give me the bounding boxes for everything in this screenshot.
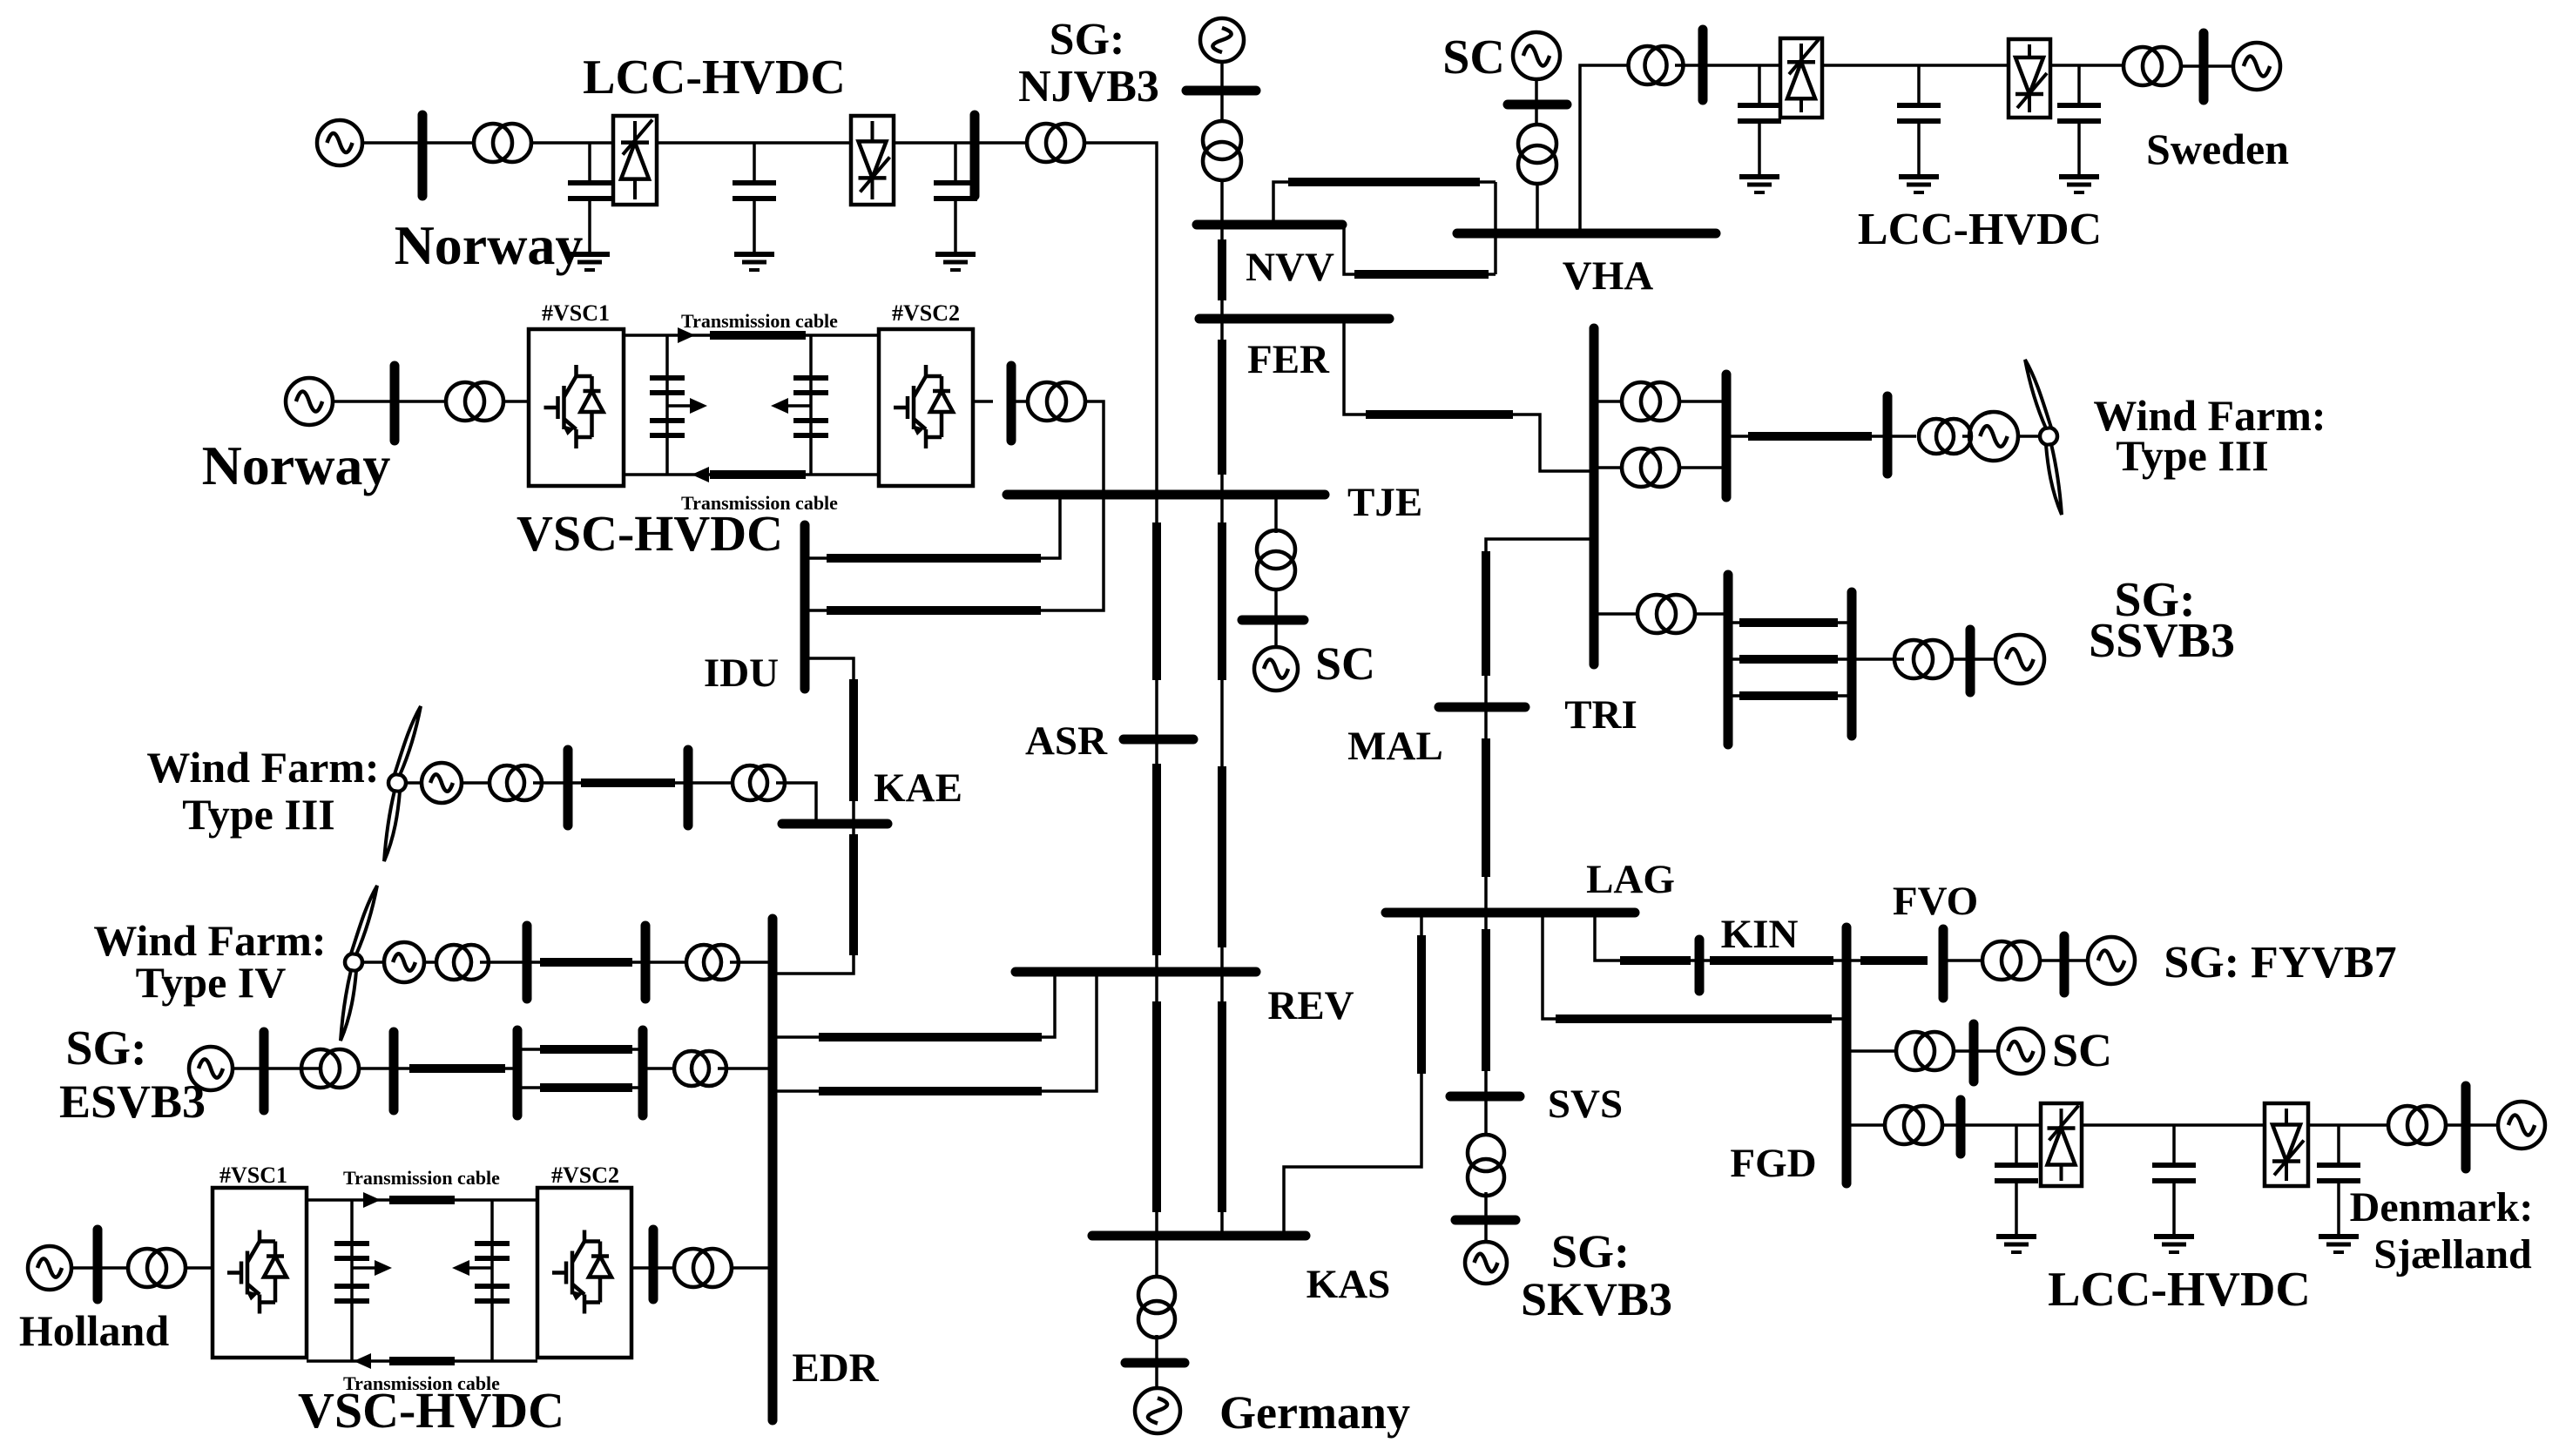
wire: DC rail left — [350, 1200, 354, 1361]
wire — [1852, 657, 1904, 661]
wire — [688, 781, 733, 785]
transmission cable (positive pole, Norway link) — [710, 331, 806, 340]
bus: FYVB7 HV bus — [1939, 929, 1948, 998]
wire — [1679, 466, 1726, 469]
transformer: Sweden link converter transformer — [1629, 46, 1684, 84]
DC capacitor (VSC2 side lower) — [475, 1286, 510, 1301]
wire: triple circuit 2 — [1728, 657, 1852, 661]
transformer: TRI wind farm transformer 2 — [1622, 448, 1679, 487]
wind turbine (Type III wind farm) — [384, 706, 421, 861]
LCC converter: inverter (Sweden link) — [2009, 39, 2050, 118]
wire — [2204, 64, 2233, 68]
svg-text:#VSC2: #VSC2 — [551, 1163, 619, 1188]
svg-text:#VSC2: #VSC2 — [892, 300, 960, 326]
transmission line SSVB3 circuit 1 — [1739, 618, 1838, 627]
bus TJE — [1007, 490, 1325, 500]
wire: midpoint stub — [667, 404, 695, 408]
bus: Norway VSC AC bus — [390, 366, 400, 441]
bus: ESVB3 generator bus — [260, 1032, 269, 1110]
wind turbine (Type III wind farm right) — [2025, 360, 2062, 515]
transmission line KIN-FVO — [1710, 956, 1833, 965]
AC source: wind farm Type III equivalent — [1969, 412, 2018, 461]
wire — [1675, 64, 1703, 67]
transformer: Norway VSC converter transformer — [446, 382, 503, 421]
bus: TJE SC bus — [1242, 616, 1304, 625]
svg-text:SKVB3: SKVB3 — [1521, 1273, 1672, 1325]
wire to EDR — [730, 961, 773, 964]
svg-text:ASR: ASR — [1025, 718, 1108, 764]
transmission line SSVB3 circuit 3 — [1739, 691, 1838, 700]
wire — [568, 781, 688, 785]
transmission line: wind farm feeder — [1748, 432, 1872, 441]
wire: midpoint stub — [352, 1266, 380, 1270]
arrow: power flow direction — [354, 1353, 371, 1369]
bus: LCC link Danish-side bus — [970, 115, 980, 196]
DC filter capacitor with ground — [733, 143, 776, 270]
wire: VHA drop — [1494, 182, 1497, 274]
transformer: Norway VSC grid transformer — [1028, 382, 1085, 421]
arrow: midpoint reference — [690, 398, 707, 414]
transmission line TRI-MAL — [1482, 551, 1490, 676]
bus KAE — [782, 819, 888, 829]
transformer: Sjaelland link converter transformer — [1885, 1106, 1942, 1144]
bus: Sjaelland link AC bus — [1956, 1100, 1966, 1154]
transformer: Sweden grid transformer — [2123, 47, 2181, 85]
bus: NJVB3 generator bus — [1186, 86, 1256, 96]
bus KAS — [1092, 1231, 1306, 1241]
svg-text:LCC-HVDC: LCC-HVDC — [583, 51, 846, 104]
transmission line EDR-REV circuit 1 — [819, 1033, 1042, 1041]
bus: VHA SC bus — [1508, 100, 1567, 110]
bus: Holland link Danish-side bus — [649, 1230, 658, 1299]
svg-text:SVS: SVS — [1548, 1082, 1623, 1127]
transmission line NVV-VHA circuit 2 — [1354, 270, 1489, 279]
AC source: Germany grid — [1135, 1388, 1180, 1433]
bus MAL — [1439, 703, 1525, 712]
AC source: Denmark Sjaelland grid — [2498, 1102, 2545, 1149]
wire: LAG-KIN-FVO — [1595, 913, 1847, 961]
DC capacitor (VSC1 side lower) — [650, 421, 685, 435]
filter capacitor with ground — [2057, 65, 2101, 192]
wire — [503, 400, 529, 403]
AC source: synchronous generator FYVB7 — [2088, 937, 2135, 984]
wire: triple circuit 1 — [1728, 621, 1852, 624]
AC source: synchronous condenser at TJE — [1254, 647, 1298, 691]
wire — [1594, 466, 1622, 469]
filter capacitor with ground — [1995, 1125, 2038, 1252]
transformer: ESVB3 step-up — [301, 1049, 359, 1088]
transmission line IDU-TJE circuit 2 — [827, 606, 1041, 615]
wire — [333, 400, 395, 403]
transmission line FVO-FYVB7 — [1860, 956, 1928, 965]
arrow: midpoint reference — [375, 1260, 392, 1276]
transformer: Sjaelland grid transformer — [2388, 1106, 2446, 1144]
wire — [2040, 959, 2064, 962]
svg-text:NJVB3: NJVB3 — [1018, 62, 1159, 111]
filter capacitor with ground — [2317, 1125, 2360, 1252]
bus: SSVB3 line bus 2 — [1847, 592, 1857, 736]
wire — [362, 141, 422, 145]
wire — [527, 961, 645, 964]
svg-text:#VSC1: #VSC1 — [219, 1163, 287, 1188]
svg-text:IDU: IDU — [704, 650, 779, 696]
LCC converter: rectifier (Sweden link) — [1780, 38, 1822, 118]
bus: wind farm collector bus — [564, 750, 573, 826]
svg-text:SG:: SG: — [1050, 15, 1125, 64]
bus: ESVB3 line bus 2 — [638, 1030, 648, 1116]
wire — [2466, 1123, 2498, 1127]
wire — [394, 1067, 517, 1070]
wire — [405, 781, 422, 785]
wire: FER-TRI — [1344, 319, 1594, 471]
wire — [1974, 1049, 1998, 1053]
LCC converter: rectifier (Sjaelland link) — [2041, 1103, 2082, 1186]
VSC converter #VSC1 (Norway link) — [529, 329, 624, 486]
wire — [894, 141, 975, 145]
VSC converter #VSC2 (Norway link) — [879, 329, 973, 486]
bus: SSVB3 line bus 1 — [1724, 575, 1733, 745]
transformer: VHA SC transformer — [1518, 125, 1556, 184]
wire — [361, 961, 384, 964]
transmission line TJE-REV lower — [1218, 766, 1226, 947]
wire — [653, 1266, 675, 1270]
wire: KAE-EDR — [773, 824, 854, 974]
wire — [359, 1067, 394, 1070]
wire — [531, 141, 613, 145]
bus: SSVB3 generator bus — [1966, 630, 1975, 692]
bus FER — [1199, 314, 1389, 324]
wire — [2181, 64, 2204, 68]
wire: double circuit upper — [517, 1048, 643, 1051]
bus NVV — [1197, 220, 1342, 230]
DC capacitor (VSC2 side lower) — [793, 421, 828, 435]
transformer: SKVB3 step-up — [1468, 1135, 1504, 1196]
wire: LAG-KAS — [1284, 913, 1421, 1236]
filter capacitor with ground — [1738, 65, 1781, 192]
bus: wind farm grid bus — [1883, 396, 1893, 474]
bus: Norway LCC AC bus — [418, 115, 428, 196]
arrow: power flow direction — [678, 327, 695, 343]
wire — [1155, 1236, 1158, 1277]
wire — [975, 141, 1027, 145]
wire — [462, 781, 490, 785]
wire — [1847, 1049, 1896, 1053]
transformer: TJE SC transformer — [1257, 530, 1295, 590]
wire: TRI-MAL-LAG corridor — [1486, 539, 1594, 1096]
VSC converter #VSC1 (Holland link) — [213, 1188, 307, 1358]
transformer: NJVB3 step-up — [1203, 121, 1241, 180]
wire — [1535, 108, 1538, 125]
svg-text:VSC-HVDC: VSC-HVDC — [298, 1382, 564, 1439]
bus: ESVB3 line bus 1 — [513, 1030, 523, 1116]
AC source: wind farm Type IV equivalent — [384, 942, 424, 982]
wire — [1962, 435, 1969, 438]
bus: Germany border bus — [1125, 1358, 1185, 1368]
svg-text:VHA: VHA — [1563, 253, 1654, 299]
svg-text:LCC-HVDC: LCC-HVDC — [2048, 1263, 2311, 1317]
LCC converter: inverter (Norway link) — [851, 116, 894, 205]
transformer: FYVB7 step-up — [1982, 941, 2040, 980]
bus: Holland AC bus — [93, 1230, 103, 1299]
transmission line FER-TRI — [1366, 410, 1513, 419]
wire: midpoint stub — [464, 1266, 492, 1270]
svg-text:Wind Farm:: Wind Farm: — [146, 743, 379, 792]
transmission line MAL-LAG — [1482, 738, 1490, 877]
transmission line EDR-REV circuit 2 — [819, 1087, 1042, 1095]
wire: EDR-REV line 2 — [773, 972, 1097, 1091]
transmission line SSVB3 circuit 2 — [1739, 655, 1838, 664]
DC filter capacitor with ground — [1897, 65, 1941, 192]
bus IDU — [800, 525, 810, 689]
bus: Sweden grid bus — [2199, 33, 2209, 100]
bus SVS — [1450, 1092, 1520, 1102]
wire: LAG-FGD — [1543, 913, 1847, 1019]
bus FVO/FGD — [1842, 927, 1852, 1183]
svg-text:KIN: KIN — [1721, 912, 1799, 957]
bus REV — [1016, 967, 1256, 977]
bus EDR — [768, 919, 778, 1420]
bus: ESVB3 HV bus — [389, 1032, 399, 1110]
svg-text:Type III: Type III — [2116, 431, 2269, 480]
bus: Sweden link AC bus — [1698, 30, 1708, 100]
AC source: synchronous condenser at FGD — [1998, 1028, 2043, 1074]
wire — [480, 961, 527, 964]
wire — [1679, 400, 1726, 403]
bus: FGD SC bus — [1969, 1024, 1979, 1082]
svg-text:Sweden: Sweden — [2146, 125, 2289, 173]
transformer: Holland VSC grid transformer — [674, 1249, 732, 1287]
AC source: Sweden grid — [2233, 43, 2280, 90]
corridor west: TJE-ASR-REV-KAS — [1155, 495, 1158, 1236]
bus: SKVB3 generator bus — [1455, 1216, 1516, 1225]
wire to TJE — [1085, 401, 1104, 495]
wire: IDU-TJE line 1 — [805, 495, 1060, 558]
svg-text:REV: REV — [1267, 983, 1354, 1028]
svg-text:SC: SC — [1315, 637, 1375, 690]
bus: Type IV collector bus — [523, 926, 532, 999]
filter capacitor with ground — [568, 143, 611, 270]
DC capacitor (VSC1 side) — [650, 378, 685, 393]
arrow: power flow direction — [363, 1192, 381, 1208]
bus TRI — [1590, 328, 1599, 664]
transmission line LAG-FGD — [1556, 1014, 1832, 1023]
transmission line NVV-FER — [1218, 239, 1226, 300]
wire: DC line — [1822, 64, 2009, 67]
svg-text:SG: FYVB7: SG: FYVB7 — [2164, 938, 2396, 988]
wire — [1952, 657, 1970, 661]
transmission line IDU-KAE — [849, 679, 858, 801]
DC capacitor (VSC2 side) — [793, 378, 828, 393]
AC source: Norway grid (VSC link) — [286, 378, 333, 425]
svg-text:MAL: MAL — [1347, 724, 1443, 769]
wire — [1887, 435, 1916, 438]
AC source: synchronous generator NJVB3 — [1200, 18, 1244, 62]
svg-text:EDR: EDR — [792, 1345, 879, 1391]
wire — [645, 961, 685, 964]
svg-text:TJE: TJE — [1347, 480, 1422, 525]
wire — [2050, 64, 2123, 67]
DC capacitor (VSC2 side) — [475, 1244, 510, 1258]
svg-text:KAE: KAE — [874, 765, 962, 811]
wire: EDR-REV line 1 — [773, 972, 1055, 1037]
svg-text:Holland: Holland — [19, 1306, 169, 1355]
bus: Sjaelland grid bus — [2461, 1086, 2471, 1169]
svg-text:SC: SC — [2052, 1024, 2112, 1076]
svg-text:Denmark:: Denmark: — [2350, 1184, 2534, 1230]
svg-text:SG:: SG: — [1551, 1225, 1630, 1277]
transmission line: double circuit lower — [540, 1083, 632, 1092]
wire — [424, 961, 436, 964]
svg-text:LCC-HVDC: LCC-HVDC — [1858, 205, 2102, 254]
wire — [2064, 959, 2088, 962]
wire: midpoint stub — [783, 404, 811, 408]
wire — [395, 400, 446, 403]
AC source: wind farm Type III equivalent — [422, 763, 462, 803]
VSC converter #VSC2 (Holland link) — [537, 1188, 631, 1358]
svg-text:Germany: Germany — [1219, 1386, 1410, 1439]
svg-text:LAG: LAG — [1586, 857, 1675, 902]
transformer: Type IV grid transformer — [686, 945, 739, 980]
wire — [186, 1266, 213, 1270]
arrow: midpoint reference — [452, 1260, 469, 1276]
wire: DC negative pole — [307, 1359, 537, 1363]
transmission line TJE-REV upper — [1218, 522, 1226, 680]
transmission line: Type IV feeder — [540, 958, 632, 967]
svg-text:Type III: Type III — [182, 790, 335, 839]
wire — [1535, 79, 1538, 108]
corridor east: NVV-FER-TJE-REV-KAS — [1220, 225, 1224, 1236]
wire — [1220, 179, 1224, 225]
svg-text:KAS: KAS — [1307, 1262, 1391, 1307]
transmission line: double circuit upper — [540, 1045, 632, 1054]
transformer: wind farm unit transformer — [436, 945, 489, 980]
transmission line ASR-REV (west) — [1152, 764, 1161, 955]
bus KIN — [1695, 940, 1705, 991]
AC source: synchronous generator ESVB3 — [189, 1047, 233, 1090]
wire — [1847, 959, 1860, 962]
AC source: Norway grid (LCC link) — [317, 120, 362, 165]
svg-text:Norway: Norway — [202, 435, 391, 496]
svg-text:FGD: FGD — [1730, 1141, 1816, 1186]
transformer: wind farm unit transformer — [1919, 419, 1971, 454]
bus VHA — [1457, 229, 1716, 239]
bus: Type IV grid bus — [641, 926, 651, 999]
svg-text:SC: SC — [1442, 30, 1505, 84]
wire: DC rail right — [809, 335, 813, 475]
transmission line LAG-KAS — [1417, 935, 1426, 1074]
bus: Norway VSC Danish-side bus — [1007, 366, 1016, 441]
transmission cable (positive pole, Holland link) — [389, 1196, 455, 1204]
svg-text:ESVB3: ESVB3 — [59, 1075, 206, 1128]
bus: wind farm grid bus — [684, 750, 693, 826]
bus: FYVB7 generator bus — [2060, 936, 2069, 993]
wire — [1954, 1049, 1974, 1053]
transformer: FGD SC transformer — [1896, 1032, 1954, 1070]
wire — [2308, 1123, 2388, 1127]
svg-text:SG:: SG: — [65, 1021, 146, 1075]
wire — [1274, 495, 1278, 533]
wire — [1703, 64, 1780, 67]
filter capacitor with ground — [934, 143, 977, 270]
transmission cable (negative pole, Holland link) — [389, 1357, 455, 1365]
svg-text:FER: FER — [1247, 337, 1330, 382]
svg-text:VSC-HVDC: VSC-HVDC — [517, 505, 783, 562]
transmission cable (negative pole, Norway link) — [710, 470, 806, 479]
wire: DC negative pole — [624, 473, 879, 476]
svg-text:Transmission cable: Transmission cable — [681, 310, 838, 332]
transformer: LCC link grid transformer — [1027, 124, 1084, 162]
wire — [533, 781, 568, 785]
DC capacitor (VSC1 side) — [334, 1244, 369, 1258]
wire: DC rail right — [490, 1200, 494, 1361]
wire — [1155, 1363, 1158, 1388]
wire: double circuit lower — [517, 1086, 643, 1089]
svg-text:SSVB3: SSVB3 — [2089, 614, 2235, 668]
wire: triple circuit 3 — [1728, 694, 1852, 698]
wire to KAE — [776, 783, 816, 824]
wire — [1695, 612, 1728, 616]
wire — [1942, 1123, 1961, 1127]
transformer: SSVB3 step-up — [1894, 640, 1952, 678]
wire — [1220, 91, 1224, 122]
svg-text:Sjælland: Sjælland — [2373, 1231, 2532, 1277]
transmission line TJE-ASR — [1152, 522, 1161, 680]
transmission line LAG-KIN — [1620, 956, 1691, 965]
transformer: wind farm unit transformer — [490, 765, 542, 800]
wire — [1484, 1192, 1488, 1220]
transmission line REV-KAS (east) — [1218, 1001, 1226, 1212]
wire — [1943, 959, 1982, 962]
transformer: wind farm grid transformer — [733, 765, 785, 800]
svg-text:#VSC1: #VSC1 — [542, 300, 610, 326]
wire: DC positive pole — [624, 334, 879, 337]
transformer: ESVB3 grid transformer — [674, 1051, 726, 1086]
transmission line FER-TJE — [1218, 340, 1226, 475]
AC source: Holland grid — [28, 1246, 71, 1290]
transmission line NVV-VHA circuit 1 — [1288, 178, 1480, 186]
wire — [1726, 435, 1887, 438]
wire — [422, 141, 474, 145]
wire — [1274, 620, 1278, 647]
wire: IDU-TJE line 2 — [805, 495, 1104, 610]
wire — [98, 1266, 127, 1270]
wire — [631, 1266, 653, 1270]
svg-text:FVO: FVO — [1893, 879, 1978, 924]
wire: NVV-VHA circuit 1 riser — [1273, 182, 1496, 225]
svg-text:NVV: NVV — [1246, 245, 1334, 290]
AC source: synchronous condenser at VHA — [1513, 32, 1560, 79]
wire — [1847, 1123, 1885, 1127]
wire: DC rail left — [665, 335, 669, 475]
transformer: SSVB3 interface transformer — [1637, 595, 1695, 633]
wire: IDU-KAE — [805, 658, 854, 824]
transformer: Norway LCC converter transformer — [474, 124, 531, 162]
bus LAG — [1386, 908, 1635, 918]
transformer: TRI wind farm transformer 1 — [1622, 382, 1679, 421]
wire — [1220, 62, 1224, 91]
transmission line IDU-TJE circuit 1 — [827, 554, 1041, 563]
bus ASR — [1124, 735, 1193, 745]
svg-text:Type IV: Type IV — [136, 958, 287, 1007]
arrow: power flow direction — [692, 467, 709, 482]
wire — [1011, 400, 1028, 403]
wire: VHA to Sweden link riser — [1580, 65, 1629, 233]
wire to EDR — [732, 1266, 773, 1270]
wire — [264, 1067, 321, 1070]
wire: DC line — [657, 141, 851, 145]
wire — [1594, 400, 1622, 403]
transmission line LAG-SVS — [1482, 929, 1490, 1071]
